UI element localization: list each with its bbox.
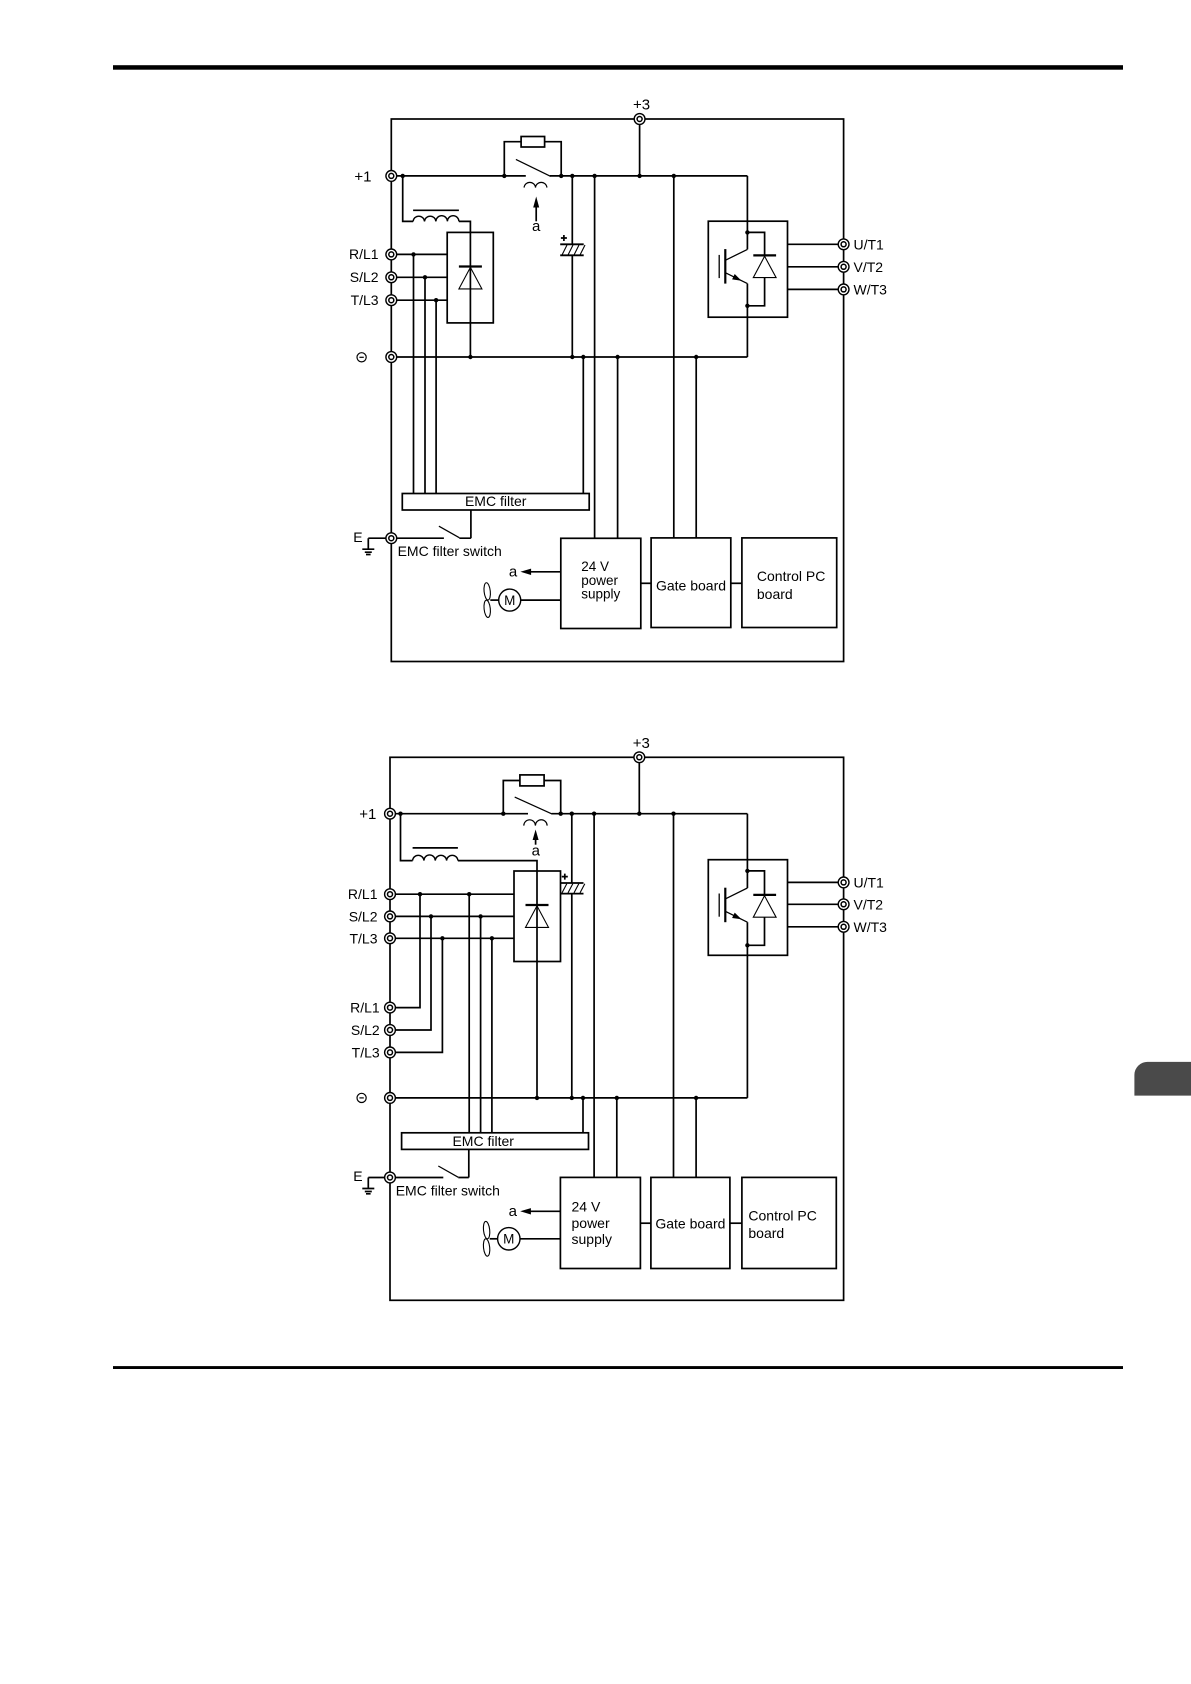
svg-text:T/L3: T/L3 <box>351 292 379 308</box>
terminal minus D1 <box>357 352 397 363</box>
svg-text:E: E <box>353 529 362 545</box>
ground symbol D2 <box>362 1178 390 1194</box>
page bottom rule <box>113 1366 1123 1369</box>
IGBT Q1 emitter diagonal with arrow <box>725 273 747 284</box>
wire: bypass right riser <box>545 142 562 176</box>
svg-text:W/T3: W/T3 <box>854 919 888 935</box>
terminal U/T1 D1 <box>838 236 884 252</box>
svg-text:V/T2: V/T2 <box>854 259 884 275</box>
DC choke lead right <box>459 221 471 232</box>
DC choke lead left D2 <box>401 814 413 861</box>
freewheel diode triangle <box>753 256 776 277</box>
IGBT Q1 body bar D2 <box>724 888 726 923</box>
svg-text:a: a <box>532 842 541 859</box>
svg-text:a: a <box>509 563 518 580</box>
wire: output V/T2 <box>788 266 844 268</box>
rectifier diode triangle <box>459 267 482 289</box>
drive enclosure box D1 <box>391 119 843 662</box>
svg-text:EMC filter switch: EMC filter switch <box>398 543 502 559</box>
capacitor C1 plates and hatch <box>560 244 585 255</box>
IGBT Q1 gate bar <box>718 255 720 278</box>
minus bus wire D2 <box>390 1097 747 1099</box>
wire: +1 bus left segment D2 <box>390 813 528 815</box>
rectifier module box <box>447 232 493 323</box>
label E D1 <box>353 529 362 545</box>
terminal R/L1 first D2 <box>348 886 395 902</box>
EMC filter switch D1 <box>391 510 471 538</box>
arrow a to 24V supply D1 <box>509 563 561 580</box>
wire: inverter bottom to minus bus D2 <box>746 955 748 1098</box>
rectifier center wire D2 <box>536 871 538 1098</box>
EMC filter box D1 <box>402 493 589 510</box>
inverter module box (IGBT) <box>708 221 787 317</box>
freewheel diode bottom lead <box>747 278 764 306</box>
DC choke winding D2 <box>413 855 458 861</box>
wire: input T/L3 to rectifier <box>391 299 447 301</box>
svg-text:EMC filter: EMC filter <box>465 493 527 509</box>
svg-text:W/T3: W/T3 <box>854 281 888 297</box>
svg-text:T/L3: T/L3 <box>352 1044 380 1060</box>
terminal T/L3 second D2 <box>352 1044 396 1060</box>
cooling fan D2 <box>483 1221 498 1256</box>
IGBT Q1 collector diagonal D2 <box>725 888 747 899</box>
IGBT emitter down wire <box>746 284 748 318</box>
svg-text:a: a <box>532 218 541 235</box>
wire: input R/L1 to rectifier D2 <box>390 893 514 895</box>
wire: input S/L2 to rectifier D2 <box>390 915 514 917</box>
terminal W/T3 D1 <box>838 281 887 297</box>
page edge tab <box>1134 1062 1191 1096</box>
wire: minus bus drop to EMC filter <box>582 357 584 494</box>
wire: minus drop to gate board <box>695 357 697 538</box>
terminal S/L2 second D2 <box>351 1022 396 1038</box>
wire: +1 bus left segment <box>391 175 526 177</box>
inverter internal top node wire D2 <box>747 860 764 895</box>
label a (relay) D2 <box>532 842 541 859</box>
DC choke core bar <box>413 209 459 211</box>
junction dots D1 <box>401 174 750 359</box>
24V power supply box D2 <box>560 1177 640 1268</box>
terminal U/T1 D2 <box>838 874 884 890</box>
svg-text:U/T1: U/T1 <box>854 236 885 252</box>
capacitor C1 plus sign <box>561 235 567 241</box>
wire: +1 bus right segment D2 <box>552 813 748 815</box>
wire: input S/L2 to rectifier <box>391 276 447 278</box>
svg-text:Control PC: Control PC <box>748 1207 816 1223</box>
wire: minus drop to 24V supply <box>617 357 619 538</box>
drive enclosure box D2 <box>390 757 844 1300</box>
capacitor C1 plus sign D2 <box>562 874 568 880</box>
label EMC filter switch D1 <box>398 543 502 559</box>
wire: minus drop to 24V supply D2 <box>616 1098 618 1178</box>
wire: link to 2nd T/L3 D2 <box>390 938 442 1052</box>
wire: bypass left riser <box>504 142 521 176</box>
relay coil K1 D2 <box>524 820 547 826</box>
svg-text:M: M <box>503 1232 514 1247</box>
svg-text:R/L1: R/L1 <box>350 1000 380 1016</box>
label EMC filter switch D2 <box>396 1182 500 1198</box>
wire: output U/T1 <box>788 243 844 245</box>
freewheel diode cathode bar <box>753 254 776 256</box>
capacitor C1 bottom lead D2 <box>571 894 573 1098</box>
svg-text:T/L3: T/L3 <box>349 930 377 946</box>
wire: link to 2nd R/L1 D2 <box>390 894 420 1007</box>
svg-text:+1: +1 <box>359 806 376 823</box>
inverter module box (IGBT) D2 <box>708 860 787 956</box>
wire: output V/T2 D2 <box>788 903 844 905</box>
rectifier diode cathode bar D2 <box>526 904 549 906</box>
svg-text:+3: +3 <box>633 735 650 752</box>
wire: minus bus drop to EMC filter D2 <box>582 1098 584 1133</box>
wire: +3 drop D2 <box>638 757 640 813</box>
svg-text:board: board <box>757 586 793 602</box>
relay contact K1 blade <box>516 159 551 176</box>
junction dots D2 <box>398 812 749 1101</box>
gate board box D2 <box>651 1177 730 1268</box>
svg-text:24 V: 24 V <box>572 1198 601 1214</box>
wire: minus drop to gate board D2 <box>695 1098 697 1178</box>
terminal +3 D2 <box>633 735 650 763</box>
DC choke winding <box>413 216 459 222</box>
svg-text:R/L1: R/L1 <box>348 886 378 902</box>
terminal S/L2 first D2 <box>349 908 396 924</box>
wire: DC feed to gate board D2 <box>673 814 675 1178</box>
wire: DC feed to 24V supply <box>594 176 596 538</box>
svg-text:+1: +1 <box>354 168 371 185</box>
wire: EMC tap T D2 <box>491 938 493 1133</box>
wire: EMC tap R D2 <box>468 894 470 1133</box>
wire: +3 drop <box>639 119 641 176</box>
wire: +1 bus right segment <box>550 175 748 177</box>
IGBT Q1 gate bar D2 <box>718 894 720 917</box>
wire: bypass left riser D2 <box>503 781 520 814</box>
charging resistor R1 D2 <box>520 775 544 786</box>
terminal T/L3 first D2 <box>349 930 395 946</box>
terminal S/L2 D1 <box>350 269 397 285</box>
rectifier diode cathode bar <box>459 265 482 267</box>
terminal +1 D2 <box>359 806 395 823</box>
gate board box D1 <box>651 538 731 628</box>
control PC board box D2 <box>742 1177 836 1268</box>
terminal +1 D1 <box>354 168 396 185</box>
ground symbol D1 <box>362 538 391 554</box>
svg-text:24 V: 24 V <box>581 559 609 574</box>
svg-text:E: E <box>353 1168 362 1184</box>
terminal E D2 <box>385 1172 396 1183</box>
wire: output W/T3 <box>788 288 844 290</box>
DC choke core bar D2 <box>413 847 458 849</box>
control PC board box D1 <box>742 538 837 628</box>
freewheel diode bottom lead D2 <box>747 917 764 945</box>
DC choke lead right D2 <box>458 861 537 871</box>
24V power supply box D1 <box>561 538 641 628</box>
freewheel diode triangle D2 <box>753 896 776 917</box>
terminal W/T3 D2 <box>838 919 887 935</box>
capacitor C1 top lead D2 <box>571 814 573 883</box>
svg-text:Gate board: Gate board <box>655 1215 725 1231</box>
wire: EMC tap T <box>435 300 437 493</box>
svg-text:supply: supply <box>581 587 620 602</box>
svg-text:+3: +3 <box>633 96 650 113</box>
DC choke lead left <box>403 176 413 222</box>
svg-text:M: M <box>504 593 515 608</box>
arrow a to 24V supply D2 <box>509 1203 561 1220</box>
freewheel diode cathode bar D2 <box>753 894 776 896</box>
wire: EMC tap R <box>413 254 415 493</box>
wire: input R/L1 to rectifier <box>391 253 447 255</box>
wire: DC feed to 24V supply D2 <box>593 814 595 1178</box>
page top rule <box>113 65 1123 70</box>
svg-text:U/T1: U/T1 <box>854 874 885 890</box>
terminal R/L1 second D2 <box>350 1000 395 1016</box>
svg-text:S/L2: S/L2 <box>349 908 378 924</box>
wire: gate board to control board link D2 <box>730 1222 742 1224</box>
wire: link to 2nd S/L2 D2 <box>390 916 431 1030</box>
rectifier module box D2 <box>514 871 561 962</box>
relay coil K1 <box>524 182 547 187</box>
terminal +3 D1 <box>633 96 650 124</box>
capacitor C1 bottom lead <box>571 255 573 357</box>
terminal minus D2 <box>357 1093 395 1104</box>
svg-text:EMC filter: EMC filter <box>452 1133 514 1149</box>
cooling fan D1 <box>483 582 498 617</box>
terminal V/T2 D1 <box>838 259 883 275</box>
wire: bypass right riser D2 <box>544 781 561 814</box>
capacitor C1 plates and hatch D2 <box>560 883 585 894</box>
charging resistor R1 <box>521 137 545 148</box>
svg-text:a: a <box>509 1203 518 1220</box>
svg-text:board: board <box>748 1225 784 1241</box>
EMC filter box D2 <box>402 1133 589 1150</box>
actuation arrow a (relay) D2 <box>533 830 539 845</box>
wire: inverter bottom to minus bus <box>746 317 748 357</box>
capacitor C1 top lead <box>571 176 573 244</box>
wire: 24V to gate board link D2 <box>640 1222 651 1224</box>
rectifier center wire <box>469 232 471 357</box>
svg-text:power: power <box>572 1215 610 1231</box>
IGBT Q1 collector diagonal <box>725 249 747 260</box>
wire: bus drop to inverter <box>746 176 748 221</box>
label E D2 <box>353 1168 362 1184</box>
actuation arrow a (relay) <box>533 197 539 222</box>
IGBT emitter down wire D2 <box>746 922 748 955</box>
svg-text:S/L2: S/L2 <box>350 269 379 285</box>
terminal R/L1 D1 <box>349 246 397 262</box>
wire: input T/L3 to rectifier D2 <box>390 937 514 939</box>
IGBT Q1 emitter diagonal with arrow D2 <box>725 911 747 922</box>
label a (relay) <box>532 218 541 235</box>
wire: output W/T3 D2 <box>788 926 844 928</box>
wire: output U/T1 D2 <box>788 881 844 883</box>
wire: 24V to gate board link <box>641 582 651 584</box>
terminal E D1 <box>386 533 397 544</box>
rectifier diode triangle D2 <box>526 906 549 928</box>
wire: gate board to control board link <box>731 582 742 584</box>
svg-text:V/T2: V/T2 <box>854 896 884 912</box>
wire: EMC tap S D2 <box>480 916 482 1132</box>
svg-text:Control PC: Control PC <box>757 568 825 584</box>
terminal V/T2 D2 <box>838 896 883 912</box>
svg-text:R/L1: R/L1 <box>349 246 379 262</box>
svg-text:Gate board: Gate board <box>656 577 726 593</box>
fan motor M D2 <box>498 1228 561 1250</box>
minus bus wire <box>391 356 747 358</box>
wire: EMC tap S <box>424 277 426 493</box>
svg-text:S/L2: S/L2 <box>351 1022 380 1038</box>
svg-text:supply: supply <box>572 1231 612 1247</box>
terminal T/L3 D1 <box>351 292 397 308</box>
fan motor M D1 <box>499 589 561 611</box>
IGBT Q1 body bar <box>724 249 726 284</box>
EMC filter switch D2 <box>390 1149 469 1177</box>
wire: bus drop to inverter D2 <box>746 814 748 860</box>
wire: DC feed to gate board <box>673 176 675 538</box>
inverter internal top node wire <box>747 221 764 255</box>
relay contact K1 blade D2 <box>515 797 553 814</box>
svg-text:EMC filter switch: EMC filter switch <box>396 1182 500 1198</box>
